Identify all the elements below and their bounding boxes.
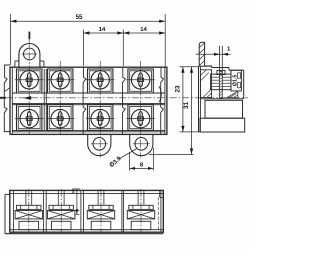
svg-text:1: 1 (227, 46, 231, 52)
svg-text:Ø1.5: Ø1.5 (232, 75, 238, 87)
dimension 14 (pitch, right) (123, 31, 129, 34)
pole 3 upper cell (88, 69, 113, 93)
pole 1 lower screw (20, 109, 38, 127)
bottom view module 1 funnel (bowtie) (15, 211, 42, 219)
dimension 8 under pole4 ear (129, 152, 131, 171)
bottom mounting ear (pole 4) (130, 134, 153, 155)
pole 4 lower screw (131, 109, 149, 127)
bottom view module 3 screw channel (97, 190, 99, 205)
pole 2 lower cell (48, 105, 73, 131)
pole 2 lower screw (51, 109, 69, 127)
svg-text:14: 14 (99, 27, 106, 33)
bottom view module 4 wire opening (131, 221, 151, 229)
side view lower body (205, 100, 243, 118)
pole 4 upper screw (131, 71, 149, 89)
bottom view small dimension 1 at module 2 (75, 210, 79, 212)
bottom view module 3 funnel (bowtie) (87, 211, 114, 219)
pole 3 upper screw (91, 71, 109, 89)
bottom view module 3 clamp bar (89, 205, 113, 209)
bottom view module 2 centerline (60, 189, 62, 232)
bottom view module 2 clamp bar (49, 205, 73, 209)
svg-text:1: 1 (72, 189, 75, 195)
bottom view module 4 centerline (140, 189, 142, 232)
dimension 55 (9, 14, 11, 65)
svg-text:14: 14 (140, 27, 147, 33)
partition pole2/3 (jogged) (83, 67, 86, 134)
pole 3 lower cell (88, 105, 113, 131)
dimension 23 (180, 66, 200, 68)
top ear shoulders (15, 60, 19, 62)
pole 2 upper cell (48, 69, 73, 93)
top mounting ear (pole 1) (19, 44, 40, 68)
bottom view top-right notch (159, 190, 161, 197)
leader and label dia 3.9 (119, 149, 137, 160)
side view screw shaft (hatched) (220, 72, 223, 99)
side view: mounting ear profile (hatched) (199, 42, 204, 66)
pole 4 lower cell (128, 105, 153, 131)
top ear hole (24, 48, 36, 60)
bottom view module 2 funnel (bowtie) (48, 211, 75, 219)
pole 4 upper cell (128, 69, 153, 93)
bottom view module 1 clamp bar (17, 205, 41, 209)
side view clamp block (211, 74, 231, 90)
bottom mounting ear (pole 3) (88, 134, 111, 155)
bottom view module 1 screw channel (25, 190, 27, 205)
arrow on centerline at pole1 (23, 96, 31, 100)
svg-text:31: 31 (183, 101, 190, 108)
bottom view module 3 centerline (100, 189, 102, 232)
bottom view outer outline (10, 190, 164, 232)
bottom view hidden line near right end (157, 198, 159, 232)
dimension 1 (screw slot) (196, 53, 231, 55)
front view horizontal shelf lines (12, 92, 165, 94)
bottom view module 3 wire opening (91, 221, 111, 229)
bottom view rear layer (4, 194, 6, 233)
dimension 31 (191, 67, 193, 155)
dimension 14 (pitch, left) (82, 30, 84, 67)
pole 1 centerline (28, 39, 30, 135)
bottom view module 1 wire opening (19, 221, 39, 229)
pole 2 centerline (59, 61, 61, 135)
bottom view module 4 funnel (bowtie) (127, 211, 154, 219)
partition pole3/4 (jogged) (123, 67, 126, 134)
side view screw slot lines (219, 46, 221, 72)
bottom view module 4 clamp bar (129, 205, 153, 209)
front view body outline (10, 67, 167, 134)
pole 3 centerline (99, 61, 101, 158)
pole 1 upper cell (17, 69, 42, 93)
pole 1 lower cell (17, 105, 42, 131)
left bracket jog diagonal (5, 87, 11, 91)
pole 4 centerline (140, 61, 142, 158)
side view screw head (217, 70, 225, 74)
side view body outline (198, 66, 200, 132)
bottom view module 2 wire opening (51, 221, 71, 229)
bottom view partition 3/4 (121, 190, 123, 232)
svg-text:23: 23 (175, 85, 182, 92)
section mark above pole 1 (28, 32, 30, 40)
bottom view inner wall lines (13, 190, 15, 232)
bottom view partition 2/3 (80, 190, 82, 232)
side view left hatched piece (200, 70, 211, 98)
svg-text:8: 8 (140, 162, 144, 168)
right end jogged line (161, 67, 164, 134)
bottom view partition 1/2 (43, 190, 45, 232)
svg-text:55: 55 (76, 14, 83, 21)
partition pole1/2 (43, 69, 45, 130)
extension line ear bottom to 31 dim (149, 153, 194, 155)
side view hatched wedge (227, 91, 238, 97)
pole 2 upper screw (51, 71, 69, 89)
bottom view module 1 centerline (28, 189, 30, 232)
left clamp bracket with break jogs (4, 65, 10, 132)
side view right block with dia 1.5 (231, 70, 241, 91)
right end plate slot (159, 86, 162, 102)
bottom view module 2 screw channel (57, 190, 59, 205)
pole 1 upper screw (20, 71, 38, 89)
horizontal centerline through both views (0, 97, 6, 99)
pole 3 lower screw (91, 109, 109, 127)
bottom view module 4 screw channel (137, 190, 139, 205)
